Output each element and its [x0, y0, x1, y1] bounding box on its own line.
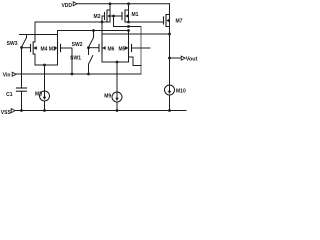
junction pair2 tail: [116, 61, 119, 64]
svg-text:VSS: VSS: [1, 110, 12, 116]
transistor M3: [54, 42, 61, 54]
wire gate drop x113: [113, 16, 115, 27]
wire C1 bottom: [21, 91, 23, 110]
wire M3 source down: [57, 54, 59, 65]
junction Vin-M3gate: [71, 73, 74, 76]
wire M6 drain up: [101, 22, 103, 42]
label M2: [94, 14, 101, 20]
wire M2 source up: [109, 4, 111, 10]
svg-text:SW3: SW3: [7, 41, 18, 47]
junction M1drain-M7gate: [127, 21, 130, 24]
junction lineA-M6drain: [101, 21, 104, 24]
wire Vout lead: [170, 57, 182, 59]
wire pair2 source line: [102, 61, 129, 63]
wire line C: [102, 33, 170, 35]
wire tail down to M8: [44, 65, 46, 91]
svg-text:M10: M10: [176, 88, 186, 94]
svg-text:Vin: Vin: [3, 72, 11, 78]
wire M6 source down: [101, 54, 103, 62]
wire VSS rail: [16, 110, 187, 112]
label C1: [6, 92, 13, 98]
junction tail: [43, 64, 46, 67]
svg-text:M5: M5: [119, 46, 126, 52]
transistor M7: [164, 15, 170, 27]
wire M5 drain up: [128, 31, 130, 43]
junction Vin-SW1: [87, 73, 90, 76]
transistor M5: [125, 42, 132, 54]
wire M7 gate line: [129, 21, 164, 23]
svg-text:M9: M9: [104, 94, 111, 100]
label SW1: [70, 55, 81, 61]
wire tail down to M9: [116, 62, 118, 92]
junction VSS-M10: [168, 109, 171, 112]
wire M3 gate lead: [61, 47, 73, 49]
node VDD: [61, 2, 77, 9]
transistor M1: [122, 10, 129, 22]
wire M7 drain down: [169, 27, 171, 86]
wire M4 source down: [34, 54, 36, 65]
label M9: [104, 94, 111, 100]
wire M10 to rail: [169, 95, 171, 111]
wire line B: [58, 30, 129, 32]
wire line y26: [114, 26, 142, 28]
transistor M6: [99, 42, 106, 54]
junction lineB-SW2: [92, 29, 95, 32]
wire M4 drain up: [34, 22, 36, 42]
svg-text:M6: M6: [108, 46, 115, 52]
junction VSS-M8: [43, 109, 46, 112]
junction VSS-C1: [20, 109, 23, 112]
node Vin: [3, 72, 16, 78]
current source M8: [40, 91, 50, 101]
label M3: [49, 46, 56, 52]
junction lineB-right: [127, 29, 130, 32]
junction SW3-M4gate: [20, 46, 23, 49]
wire M5 gate lead: [132, 47, 151, 49]
junction VDD-M2: [109, 2, 112, 5]
wire M6 gate lead: [89, 47, 100, 49]
node Vout: [181, 56, 197, 62]
label M10: [176, 88, 186, 94]
wire mirror gate line: [110, 15, 122, 17]
junction VDD-M1: [127, 2, 130, 5]
svg-text:M7: M7: [176, 19, 183, 25]
wire M9 to rail: [116, 102, 118, 111]
junction Vout: [168, 57, 171, 60]
wire M7 source up: [169, 4, 171, 15]
junction mirror gates: [112, 15, 115, 18]
label M7: [176, 19, 183, 25]
wire SW3 top line: [20, 34, 58, 36]
current source M9: [112, 92, 122, 102]
svg-text:Vout: Vout: [186, 56, 198, 62]
svg-text:M2: M2: [94, 14, 101, 20]
transistor M2: [105, 10, 111, 22]
wire Vin line: [16, 73, 141, 75]
wire M3 drain up: [57, 31, 59, 43]
junction VSS-M9: [116, 109, 119, 112]
svg-text:SW2: SW2: [72, 42, 83, 48]
switch SW2: [89, 31, 94, 47]
svg-text:C1: C1: [6, 92, 13, 98]
switch SW1: [89, 48, 93, 74]
svg-text:M8: M8: [35, 91, 42, 97]
wire M3 gate drop: [71, 48, 73, 74]
wire M4 gate lead: [22, 47, 31, 49]
wire M8 to rail: [44, 101, 46, 111]
current source M10: [165, 85, 175, 95]
wire M5 source jog: [129, 57, 142, 66]
junction SW2-M6gate: [87, 46, 90, 49]
label SW2: [72, 42, 83, 48]
wire M2 gate drop: [102, 16, 105, 22]
capacitor C1: [17, 88, 27, 91]
label M4: [41, 46, 48, 52]
svg-text:VDD: VDD: [61, 3, 72, 9]
wire VDD rail: [78, 3, 170, 5]
switch SW3: [22, 35, 27, 47]
junction lineC-M7drain: [168, 33, 171, 36]
label M6: [108, 46, 115, 52]
svg-text:M4: M4: [41, 46, 48, 52]
label M1: [132, 12, 139, 18]
svg-text:M1: M1: [132, 12, 139, 18]
junction y26-M1vert: [127, 25, 130, 28]
label M5: [119, 46, 126, 52]
wire diffpair tail line: [35, 64, 58, 66]
wire M5gate-Vin vertical: [140, 27, 142, 75]
transistor M4: [31, 42, 37, 54]
wire C1 top: [21, 48, 23, 89]
node VSS: [1, 109, 15, 116]
label SW3: [7, 41, 18, 47]
label M8: [35, 91, 42, 97]
wire M5 source down: [128, 54, 130, 62]
wire line A: [35, 21, 110, 23]
wire M1 source up: [128, 4, 130, 10]
